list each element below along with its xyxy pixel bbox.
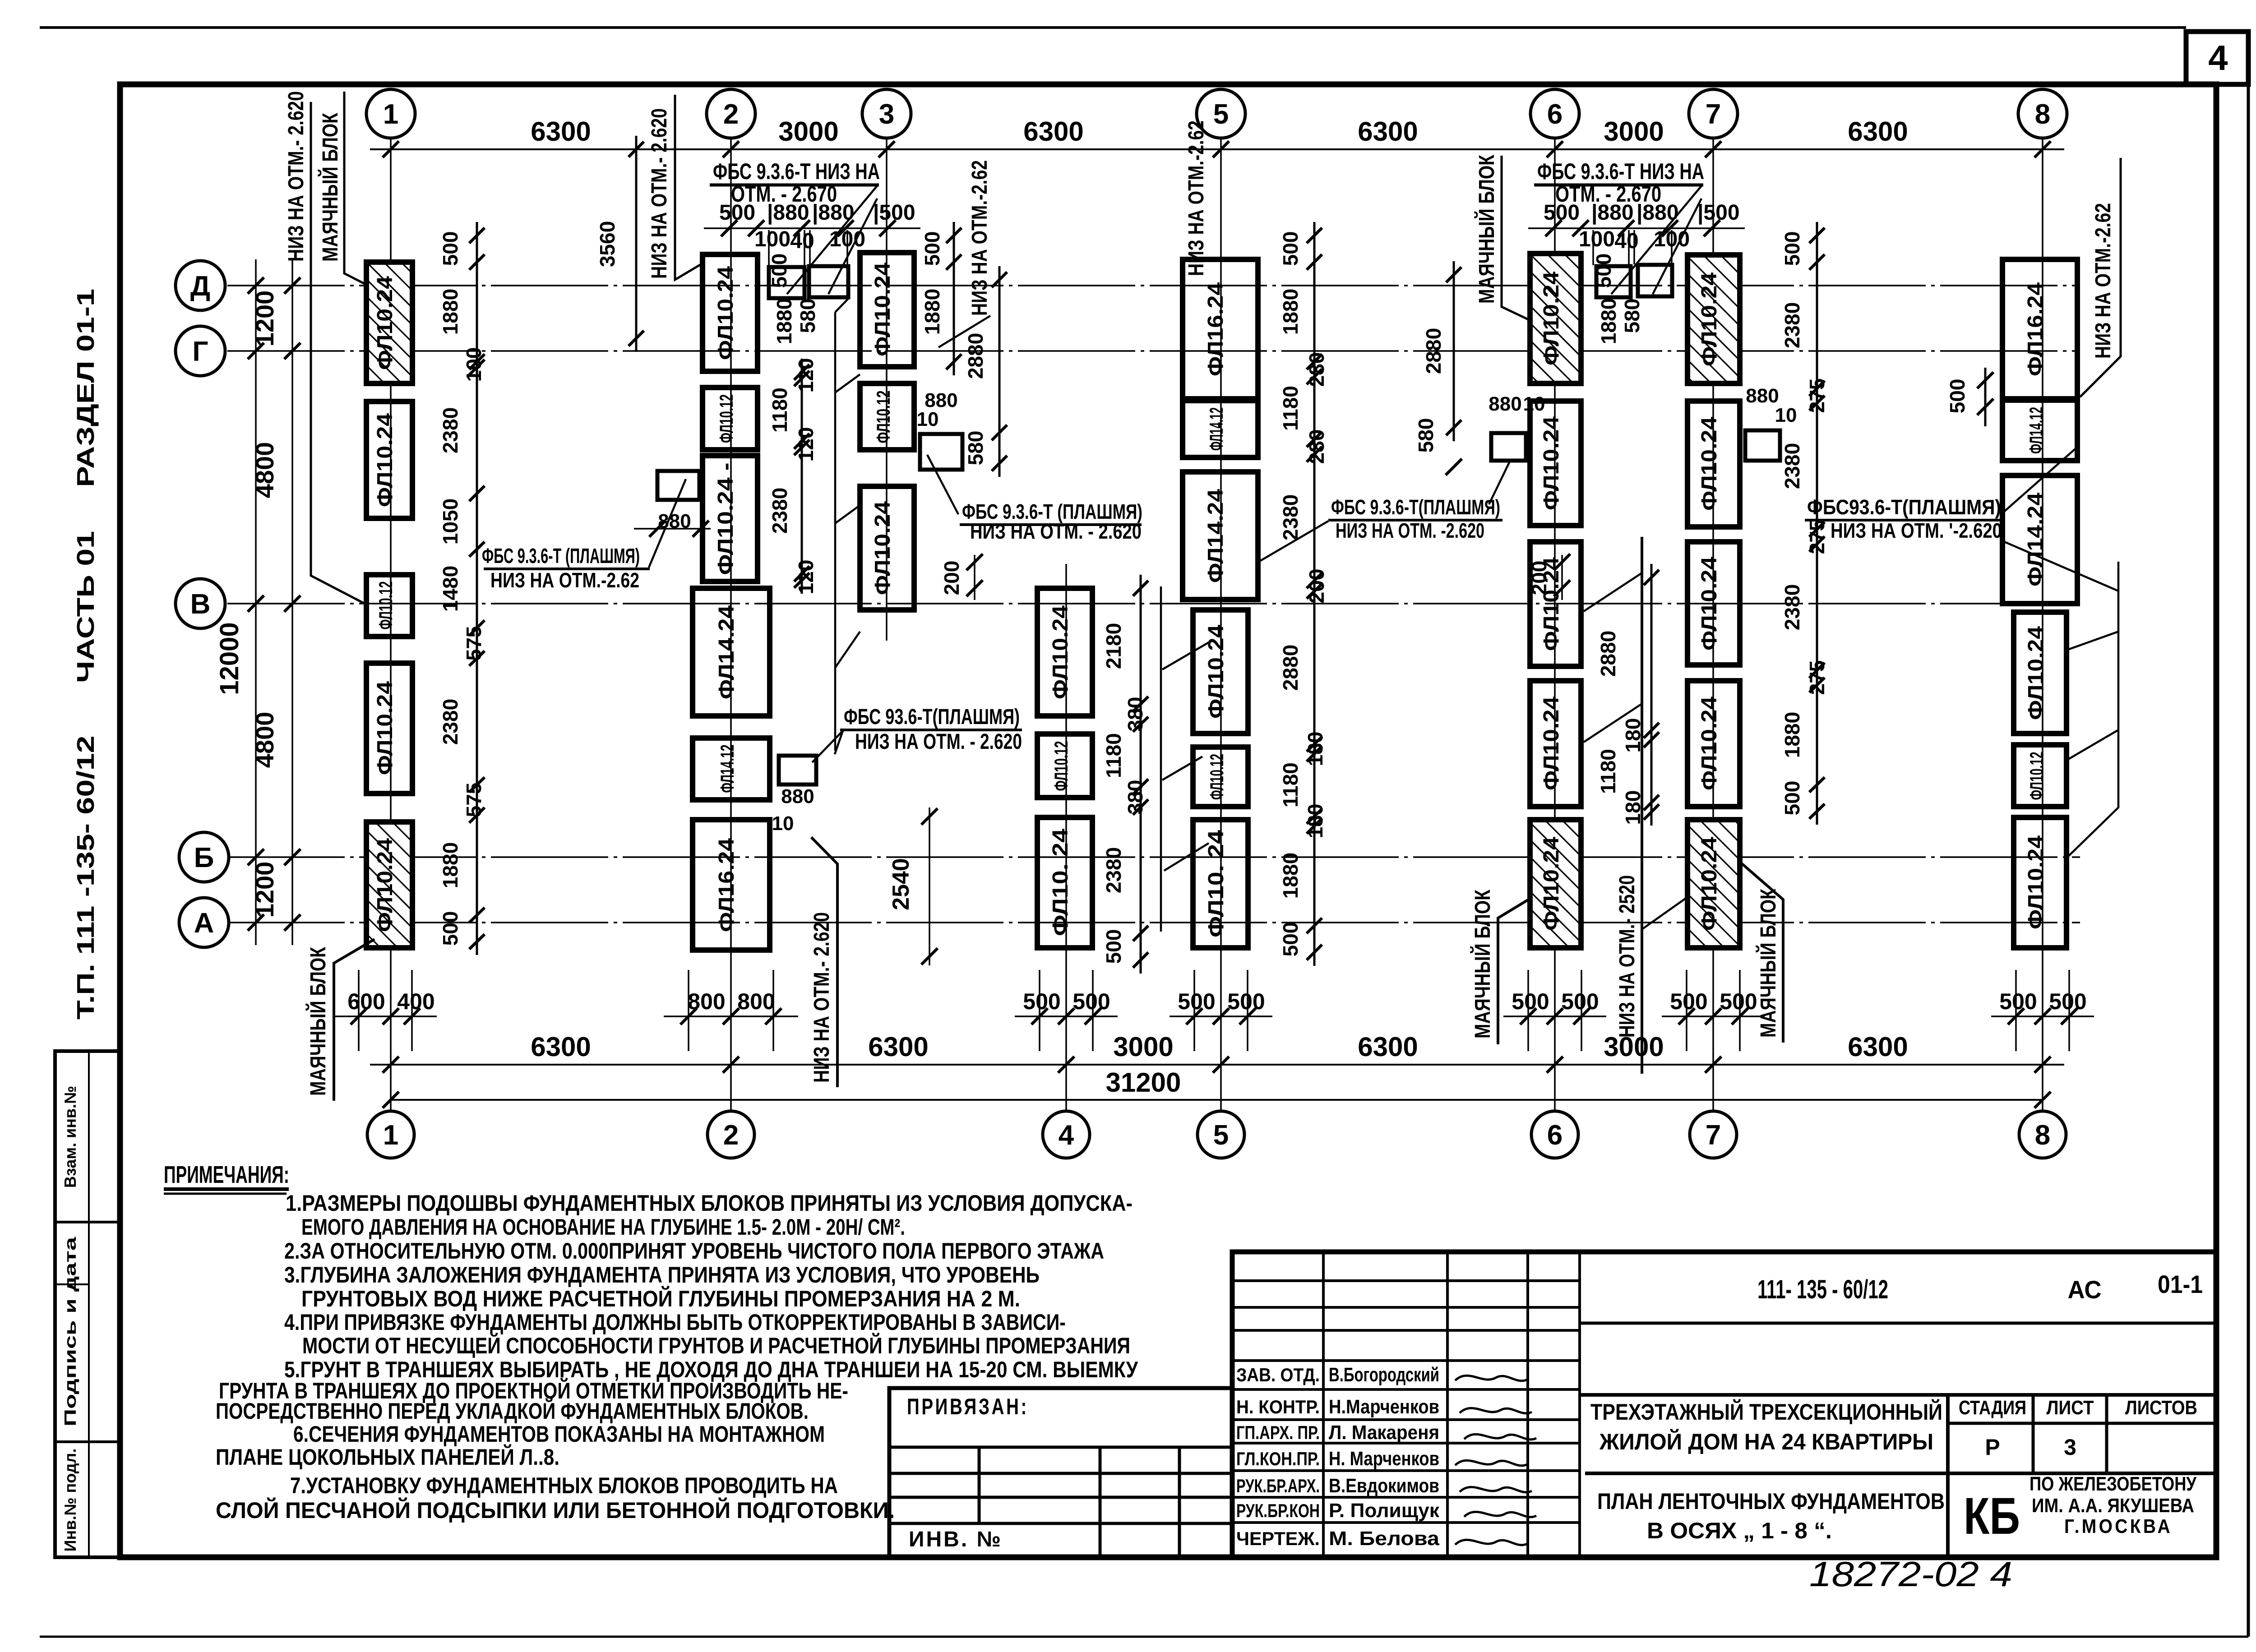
svg-text:6300: 6300 (1358, 1032, 1418, 1062)
axis circle 6 top (1530, 89, 1579, 138)
sheet outer border bottom (40, 1636, 2248, 1638)
svg-text:ФЛ10.24 -: ФЛ10.24 - (714, 463, 738, 575)
note underline col1 (484, 568, 650, 570)
leader line col2 bottom (811, 837, 837, 1087)
collector col4-5 diagonal 1 (1162, 642, 1209, 669)
svg-text:500: 500 (1279, 922, 1302, 957)
collector diagonal to col3 b3 (835, 505, 860, 523)
bottom sub dim 500 500 at x=4527 (2015, 970, 2017, 1051)
svg-text:10: 10 (772, 812, 794, 835)
dim chain col7 left (1650, 564, 1653, 826)
svg-text:А: А (194, 908, 214, 939)
svg-text:НИЗ НА ОТМ. - 2.620: НИЗ НА ОТМ. - 2.620 (970, 520, 1142, 543)
bottom total dimension line (391, 1099, 2043, 1101)
tick bottom dim axis 7 (1705, 1057, 1721, 1073)
svg-text:НИЗ НА ОТМ.- 2.620: НИЗ НА ОТМ.- 2.620 (810, 912, 834, 1083)
svg-text:100: 100 (1579, 227, 1615, 251)
block ФЛ14.24 col5 (1183, 472, 1258, 600)
svg-text:1200: 1200 (250, 291, 279, 347)
leader col3 note from square (927, 455, 958, 514)
svg-text:ФЛ10.24: ФЛ10.24 (871, 501, 895, 595)
leader line mayak col7 bottom (1742, 863, 1783, 1043)
svg-text:2540: 2540 (888, 858, 914, 910)
dim chain col8 left mini 500 (1984, 368, 1987, 426)
svg-text:ТРЕХЭТАЖНЫЙ ТРЕХСЕКЦИОННЫЙ: ТРЕХЭТАЖНЫЙ ТРЕХСЕКЦИОННЫЙ (1590, 1399, 1942, 1425)
svg-text:ФЛ10.24: ФЛ10.24 (714, 266, 738, 360)
svg-text:280: 280 (1305, 429, 1328, 464)
title band bottom line (1580, 1322, 2216, 1325)
leader center note to square (812, 731, 843, 762)
block ФЛ10.24 col6 hatched (Б-А) (1530, 820, 1581, 948)
svg-text:СЛОЙ ПЕСЧАНОЙ ПОДСЫПКИ: СЛОЙ ПЕСЧАНОЙ ПОДСЫПКИ ИЛИ БЕТОННОЙ ПОДГ… (216, 1497, 895, 1523)
svg-text:ФЛ10.24: ФЛ10.24 (1697, 272, 1721, 366)
collector diagonal to col6 block4 (1584, 704, 1642, 742)
svg-text:ФЛ10.12: ФЛ10.12 (375, 581, 396, 630)
axis circle А (179, 898, 229, 947)
svg-text:500: 500 (2049, 989, 2086, 1014)
block ФЛ14.12 col2 (693, 738, 770, 800)
tick top dim axis 1 (383, 141, 399, 157)
tick top dim axis 8 (2034, 141, 2051, 157)
svg-text:2380: 2380 (1279, 494, 1302, 540)
tick bottom dim axis 6 (1547, 1057, 1563, 1073)
signature squiggles (1455, 1375, 1527, 1381)
collector diagonal to col6 block3 (1584, 573, 1642, 611)
svg-text:2880: 2880 (1279, 645, 1302, 691)
axis line 6 vertical (1554, 138, 1556, 1111)
svg-text:500: 500 (1512, 989, 1549, 1014)
tick top dim axis 3 (878, 141, 895, 157)
block ФЛ16.24 col2 (Б-А) (693, 820, 770, 950)
svg-text:ФЛ10.24: ФЛ10.24 (1539, 697, 1563, 790)
tick top dim axis 5 (1213, 141, 1229, 157)
block ФЛ10.24 col7 hatched (Б-А) (1687, 820, 1740, 948)
block ФЛ14.24 col8 (2002, 475, 2077, 604)
leader underline mayak bottom left (334, 939, 374, 1101)
block ФЛ10.24 col2 (Д-Г) (703, 254, 758, 371)
svg-text:3: 3 (2064, 1435, 2076, 1460)
svg-text:НИЗ НА ОТМ.-2.62: НИЗ НА ОТМ.-2.62 (2091, 203, 2115, 359)
svg-text:880: 880 (781, 785, 814, 808)
leader arrow to squares 1 (1611, 186, 1701, 294)
svg-text:РУК.БР.АРХ.: РУК.БР.АРХ. (1236, 1475, 1320, 1496)
tick outer chain Д (248, 277, 264, 294)
svg-text:НИЗ НА ОТМ.- 2.620: НИЗ НА ОТМ.- 2.620 (647, 108, 671, 279)
svg-text:ФЛ10.24: ФЛ10.24 (373, 276, 397, 370)
privyazan row line 2 (889, 1496, 1232, 1499)
tick inner chain В (284, 595, 300, 612)
svg-text:1880: 1880 (1780, 712, 1804, 758)
svg-text:ФЛ10.12: ФЛ10.12 (1206, 754, 1227, 800)
axis circle 6 bottom (1531, 1111, 1578, 1158)
block ФЛ10.24 col3 (Д-Г) (860, 253, 914, 367)
title name box top line (1580, 1393, 2216, 1397)
collector col4-5 diagonal 2 (1162, 757, 1202, 780)
axis circle 7 top (1689, 89, 1738, 138)
svg-text:3000: 3000 (778, 116, 838, 147)
axis line Б horizontal (227, 856, 2080, 858)
axis line Г horizontal (227, 350, 2080, 352)
block ФЛ10.24 col1 hatched (Д-Г) (366, 262, 412, 383)
svg-text:180: 180 (1304, 804, 1327, 839)
svg-text:Подпись и дата: Подпись и дата (61, 1237, 79, 1426)
svg-text:ГРУНТОВЫХ ВОД НИЖЕ РАС: ГРУНТОВЫХ ВОД НИЖЕ РАСЧЕТНОЙ ГЛУБИНЫ ПРО… (301, 1286, 1020, 1311)
svg-text:РУК.БР.КОН: РУК.БР.КОН (1236, 1500, 1320, 1521)
collector diagonal to col7 hatched (1642, 895, 1690, 929)
block ФЛ10.24 col6 (Г-В) (1530, 401, 1581, 526)
svg-text:1880: 1880 (439, 289, 462, 335)
tick outer chain Г (248, 343, 264, 359)
leader line col1 top (311, 102, 366, 605)
square ФБС between 2-3 left (769, 267, 804, 298)
svg-text:МАЯЧНЫЙ БЛОК: МАЯЧНЫЙ БЛОК (318, 112, 342, 262)
svg-text:6300: 6300 (531, 1032, 591, 1062)
axis line Д horizontal (227, 285, 2080, 286)
tick outer chain Б (248, 849, 264, 865)
svg-text:Г.МОСКВА: Г.МОСКВА (2064, 1515, 2173, 1537)
svg-text:2: 2 (723, 1120, 739, 1151)
svg-text:4800: 4800 (250, 442, 279, 498)
tick top dim axis 7 (1705, 141, 1721, 157)
square ФБС right of col7 (1745, 430, 1780, 461)
svg-text:Н. Марченков: Н. Марченков (1329, 1448, 1439, 1470)
axis line 2 vertical (730, 138, 732, 1111)
axis circle 5 bottom (1197, 1111, 1244, 1158)
svg-text:6300: 6300 (1848, 116, 1908, 147)
collector col4-5 diagonal 3 (1164, 843, 1209, 871)
block ФЛ10.24 col7 (В-Б) (1687, 681, 1740, 807)
svg-text:4800: 4800 (250, 712, 279, 768)
title block sig table rows (1232, 1279, 1580, 1282)
svg-text:6300: 6300 (1848, 1032, 1908, 1062)
svg-text:ФЛ10.12: ФЛ10.12 (2026, 752, 2047, 800)
svg-text:7: 7 (1706, 99, 1721, 130)
dim chain col3 right (953, 222, 955, 375)
svg-text:8: 8 (2035, 99, 2050, 130)
tick outer chain В (248, 595, 264, 612)
svg-text:Л. Макареня: Л. Макареня (1329, 1421, 1439, 1444)
leader arrow to squares 2 (828, 198, 877, 294)
axis circle Г (176, 326, 225, 376)
svg-text:НИЗ НА ОТМ.-2.62: НИЗ НА ОТМ.-2.62 (1184, 120, 1208, 276)
tick total left (383, 1092, 399, 1108)
svg-text:ИНВ. №: ИНВ. № (909, 1527, 1003, 1551)
tick inner chain Д (284, 277, 300, 294)
stadia header underline (1948, 1422, 2216, 1425)
top axis dimension line (370, 148, 2064, 150)
leader line col2 top (675, 95, 702, 280)
leader line mayak col6 bottom (1498, 899, 1530, 1044)
svg-text:ФЛ10.24: ФЛ10.24 (1204, 625, 1228, 719)
svg-text:800: 800 (737, 989, 775, 1014)
sidebar inner vertical (88, 1051, 90, 1557)
svg-text:100: 100 (462, 347, 485, 382)
svg-text:ПЛАНЕ ЦОКОЛЬНЫХ ПАНЕЛЕЙ: ПЛАНЕ ЦОКОЛЬНЫХ ПАНЕЛЕЙ Л..8. (216, 1444, 559, 1470)
axis circle В (176, 579, 225, 628)
svg-text:120: 120 (794, 427, 818, 462)
privyazan table box (889, 1388, 1232, 1557)
svg-text:500: 500 (439, 231, 462, 266)
svg-text:ФЛ10.24: ФЛ10.24 (1539, 416, 1563, 510)
axis line 4 vertical (1065, 564, 1067, 1111)
leader col1 note to square S7 (649, 479, 686, 568)
svg-text:580: 580 (796, 299, 819, 333)
svg-text:120: 120 (794, 358, 818, 393)
svg-text:Н. КОНТР.: Н. КОНТР. (1236, 1396, 1320, 1417)
svg-text:600: 600 (347, 989, 385, 1014)
tick bottom dim axis 2 (723, 1057, 739, 1073)
collector diagonal to col3 b3b (835, 632, 860, 668)
svg-text:ФЛ10.24: ФЛ10.24 (1539, 272, 1563, 365)
svg-text:ФБС93.6-Т(ПЛАШМЯ): ФБС93.6-Т(ПЛАШМЯ) (1807, 495, 2001, 519)
svg-text:500: 500 (767, 254, 791, 288)
svg-text:4: 4 (2208, 38, 2228, 78)
svg-text:ЗАВ. ОТД.: ЗАВ. ОТД. (1236, 1364, 1320, 1385)
svg-text:Г: Г (192, 336, 208, 367)
svg-text:М. Белова: М. Белова (1329, 1527, 1440, 1550)
svg-text:МАЯЧНЫЙ БЛОК: МАЯЧНЫЙ БЛОК (1474, 154, 1499, 304)
leader col5 note to square (1489, 462, 1509, 504)
svg-text:1.РАЗМЕРЫ ПОДОШВЫ ФУНДАМЕН: 1.РАЗМЕРЫ ПОДОШВЫ ФУНДАМЕНТНЫХ БЛОКОВ ПР… (286, 1191, 1133, 1216)
svg-text:1480: 1480 (439, 566, 462, 612)
tick total right (2034, 1092, 2051, 1108)
block ФЛ10.12 col8 (2014, 745, 2066, 807)
tick bottom dim axis 1 (383, 1057, 399, 1073)
tick inner chain Б (284, 849, 300, 865)
svg-text:12000: 12000 (215, 622, 244, 695)
svg-text:1: 1 (383, 1120, 398, 1151)
block ФЛ14.24 col2 (693, 588, 770, 716)
leader collector col6-7 (1641, 537, 1643, 1074)
svg-text:НИЗ НА ОТМ.- 2520: НИЗ НА ОТМ.- 2520 (1615, 875, 1639, 1038)
block ФЛ10.24 col6 hatched (Д-Г) (1530, 254, 1581, 383)
block ФЛ16.24 col8 (Д-Г) (2002, 259, 2077, 399)
block ФЛ10.24 col3 (В) (860, 486, 914, 610)
svg-text:111- 135 - 60/12: 111- 135 - 60/12 (1757, 1275, 1888, 1304)
tick bottom dim axis 8 (2034, 1057, 2051, 1073)
svg-text:500: 500 (1279, 231, 1302, 266)
svg-text:ЛИСТОВ: ЛИСТОВ (2125, 1397, 2197, 1419)
svg-text:200: 200 (940, 561, 963, 595)
svg-text:ПОСРЕДСТВЕННО ПЕРЕД УКЛАД: ПОСРЕДСТВЕННО ПЕРЕД УКЛАДКОЙ ФУНДАМЕНТНЫ… (216, 1398, 809, 1424)
svg-text:ФЛ10.12: ФЛ10.12 (873, 391, 894, 443)
svg-text:ФЛ10.24: ФЛ10.24 (871, 263, 895, 356)
svg-text:575: 575 (462, 783, 485, 817)
bottom sub dim 500 500 at x=3446 (1527, 970, 1529, 1051)
svg-text:МАЯЧНЫЙ БЛОК: МАЯЧНЫЙ БЛОК (1756, 888, 1780, 1038)
sub dimension line (1528, 227, 1745, 229)
svg-text:1180: 1180 (1279, 762, 1302, 808)
svg-text:200: 200 (1527, 561, 1551, 595)
svg-text:ФЛ14.12: ФЛ14.12 (2025, 407, 2047, 454)
svg-text:2380: 2380 (1102, 847, 1125, 893)
note underline center (840, 729, 1022, 731)
svg-text:НИЗ НА ОТМ. '-2.620: НИЗ НА ОТМ. '-2.620 (1831, 519, 2002, 542)
svg-text:ФЛ10.24: ФЛ10.24 (1697, 557, 1721, 651)
svg-text:Т.П. 111 -135- 60/12 ЧАСТ: Т.П. 111 -135- 60/12 ЧАСТЬ 01 РАЗДЕЛ 01-… (72, 289, 99, 1020)
axis line 5 vertical (1220, 138, 1222, 1111)
svg-text:ФЛ10.12: ФЛ10.12 (1050, 741, 1072, 791)
dim chain 2880+580 right of col3 (999, 266, 1001, 477)
svg-text:В ОСЯХ „ 1 - 8 “.: В ОСЯХ „ 1 - 8 “. (1647, 1518, 1832, 1543)
svg-text:6: 6 (1547, 1120, 1563, 1151)
svg-text:ФЛ10.24: ФЛ10.24 (373, 413, 397, 507)
svg-text:18272-02 4: 18272-02 4 (1809, 1554, 2012, 1594)
svg-text:ФЛ14.24: ФЛ14.24 (1204, 489, 1228, 583)
axis line 3 vertical (886, 138, 888, 641)
tick outer chain А (248, 914, 264, 931)
dim chain col7 right (1816, 222, 1818, 825)
leader arrow to squares 2 (1653, 198, 1701, 294)
svg-text:500: 500 (920, 231, 944, 266)
collector col8 diagonal (2065, 730, 2118, 761)
sidebar mini divider (55, 1283, 89, 1285)
privyazan row line 1 (889, 1472, 1232, 1475)
svg-text:10: 10 (917, 408, 939, 430)
block ФЛ10.24 col4 (Б-А) (1037, 817, 1092, 948)
svg-text:Р. Полищук: Р. Полищук (1329, 1500, 1440, 1522)
collector col2-3 top diagonal (835, 298, 849, 312)
axis line 1 vertical (390, 138, 392, 1111)
block ФЛ10.24 col5 (Б-А) (1193, 820, 1248, 948)
stadia verticals (2032, 1395, 2035, 1473)
svg-text:ФБС 93.6-Т(ПЛАШМЯ): ФБС 93.6-Т(ПЛАШМЯ) (844, 705, 1020, 729)
svg-text:6300: 6300 (531, 116, 591, 147)
svg-text:275: 275 (1805, 378, 1829, 413)
svg-text:Инв.№ подл.: Инв.№ подл. (61, 1449, 79, 1552)
block ФЛ10.24 col8 (Б-А) (2014, 817, 2066, 948)
tick inner chain Г (284, 343, 300, 359)
svg-text:ГЛ.КОН.ПР.: ГЛ.КОН.ПР. (1236, 1448, 1320, 1469)
tick inner chain А (284, 914, 300, 931)
svg-text:2380: 2380 (1780, 443, 1804, 489)
svg-text:275: 275 (1805, 660, 1829, 695)
sheet outer border right (2247, 32, 2250, 1637)
svg-text:1180: 1180 (1279, 386, 1302, 431)
svg-text:2: 2 (723, 99, 739, 130)
svg-text:3.ГЛУБИНА ЗАЛОЖЕНИЯ ФУНДАМ: 3.ГЛУБИНА ЗАЛОЖЕНИЯ ФУНДАМЕНТА ПРИНЯТА И… (284, 1262, 1040, 1287)
svg-text:Д: Д (190, 271, 210, 302)
note underline (1534, 184, 1703, 187)
svg-text:ФЛ10.12: ФЛ10.12 (716, 394, 737, 443)
svg-text:1880: 1880 (1279, 853, 1302, 899)
bottom sub dim 500 500 at x=2363 (1039, 970, 1040, 1051)
svg-text:ФЛ16.24: ФЛ16.24 (2024, 282, 2048, 376)
svg-text:500: 500 (1780, 231, 1804, 266)
svg-text:6300: 6300 (1023, 116, 1083, 147)
svg-text:ЧЕРТЕЖ.: ЧЕРТЕЖ. (1236, 1528, 1320, 1549)
leader line col8 top (2080, 158, 2121, 397)
svg-text:ФЛ14.12: ФЛ14.12 (717, 745, 738, 793)
svg-text:120: 120 (794, 560, 818, 595)
svg-text:2880: 2880 (1596, 631, 1620, 677)
tick bottom dim axis 4 (1058, 1057, 1074, 1073)
leader line mayak col1 top (344, 92, 365, 284)
square ФБС between 2-3 right (809, 266, 848, 297)
svg-text:Р: Р (1985, 1435, 2000, 1460)
svg-text:ФБС 9.3.6-Т(ПЛАШМЯ): ФБС 9.3.6-Т(ПЛАШМЯ) (1331, 495, 1500, 519)
svg-text:НИЗ НА ОТМ. -2.620: НИЗ НА ОТМ. -2.620 (1336, 519, 1484, 542)
svg-text:3000: 3000 (1113, 1032, 1173, 1062)
svg-text:1200: 1200 (250, 862, 279, 918)
axis circle 8 bottom (2019, 1111, 2066, 1158)
dim chain col2 right (801, 359, 803, 594)
axis circle 4 bottom (1043, 1111, 1090, 1158)
leader col8 note diag1 (2001, 447, 2078, 514)
svg-text:200: 200 (1305, 569, 1328, 604)
tick top dim axis 6 (1547, 141, 1563, 157)
bottom sub dim 500 500 at x=2706 (1193, 970, 1195, 1051)
sidebar column box (55, 1051, 120, 1557)
block ФЛ10.24 col7 (Г-В) (1687, 401, 1740, 527)
svg-text:В.Евдокимов: В.Евдокимов (1329, 1475, 1439, 1497)
collector diagonal to col3 b2 (835, 374, 860, 392)
block ФЛ10.24 col7 hatched (Д-Г) (1687, 255, 1740, 383)
svg-text:ПО ЖЕЛЕЗОБЕТОНУ: ПО ЖЕЛЕЗОБЕТОНУ (2029, 1473, 2197, 1495)
svg-text:4: 4 (1059, 1120, 1074, 1151)
axis circle 1 top (366, 89, 415, 138)
svg-text:1880: 1880 (439, 842, 462, 888)
svg-text:ЖИЛОЙ ДОМ НА 24 КВАРТИРЫ: ЖИЛОЙ ДОМ НА 24 КВАРТИРЫ (1599, 1429, 1933, 1454)
note underline col3 (960, 523, 1142, 526)
svg-text:7: 7 (1706, 1120, 1721, 1151)
svg-text:400: 400 (397, 989, 435, 1014)
svg-text:380: 380 (1123, 697, 1147, 732)
svg-text:ФЛ14.24: ФЛ14.24 (2024, 493, 2048, 586)
svg-text:1880: 1880 (920, 289, 944, 335)
svg-text:500: 500 (1946, 379, 1969, 414)
square ФБС between 6-7 left (1596, 266, 1631, 297)
block ФЛ10.12 col5 (1193, 747, 1248, 807)
svg-text:6300: 6300 (868, 1032, 928, 1062)
block ФЛ10.12 col2 (703, 388, 758, 450)
privyazan vertical 1 (978, 1447, 981, 1523)
svg-text:НИЗ НА ОТМ. - 2.620: НИЗ НА ОТМ. - 2.620 (855, 730, 1022, 754)
svg-text:880: 880 (1489, 393, 1521, 415)
block ФЛ10.24 col2 (703, 456, 758, 581)
svg-text:Взам. инв.№: Взам. инв.№ (61, 1086, 79, 1188)
svg-text:ФЛ10.24: ФЛ10.24 (2024, 835, 2048, 929)
svg-text:2380: 2380 (768, 488, 791, 534)
svg-text:5: 5 (1213, 1120, 1229, 1151)
svg-text:1180: 1180 (1102, 733, 1125, 778)
title block outer box (1232, 1252, 2216, 1557)
svg-text:500: 500 (1780, 781, 1804, 816)
svg-text:500: 500 (1102, 929, 1125, 964)
block ФЛ10.12 col1 (В) (366, 575, 412, 637)
block ФЛ10.24 col4 (1037, 588, 1092, 716)
collector col8 (2067, 562, 2118, 857)
svg-text:500: 500 (1592, 254, 1615, 288)
leader arrow to squares 1 (787, 186, 877, 294)
left outer dim chain line (12000) (255, 259, 257, 945)
svg-text:01-1: 01-1 (2158, 1270, 2203, 1298)
svg-text:8: 8 (2035, 1120, 2050, 1151)
block ФЛ10.24 col8 (2014, 612, 2066, 734)
block ФЛ16.24 col5 (Д-Г) (1183, 259, 1258, 399)
svg-text:3560: 3560 (596, 221, 619, 267)
block ФЛ10.24 col6 (В) (1530, 542, 1581, 666)
svg-text:НИЗ НА ОТМ.-2.62: НИЗ НА ОТМ.-2.62 (490, 568, 639, 592)
title block sig table verticals (1322, 1252, 1325, 1557)
svg-text:1050: 1050 (439, 498, 462, 545)
svg-text:6300: 6300 (1358, 116, 1418, 147)
svg-text:580: 580 (964, 431, 987, 466)
svg-text:280: 280 (1305, 352, 1328, 387)
svg-text:Н.Марченков: Н.Марченков (1329, 1396, 1439, 1418)
bottom sub dim 500 500 at x=3797 (1686, 970, 1687, 1051)
svg-text:3000: 3000 (1604, 116, 1664, 147)
